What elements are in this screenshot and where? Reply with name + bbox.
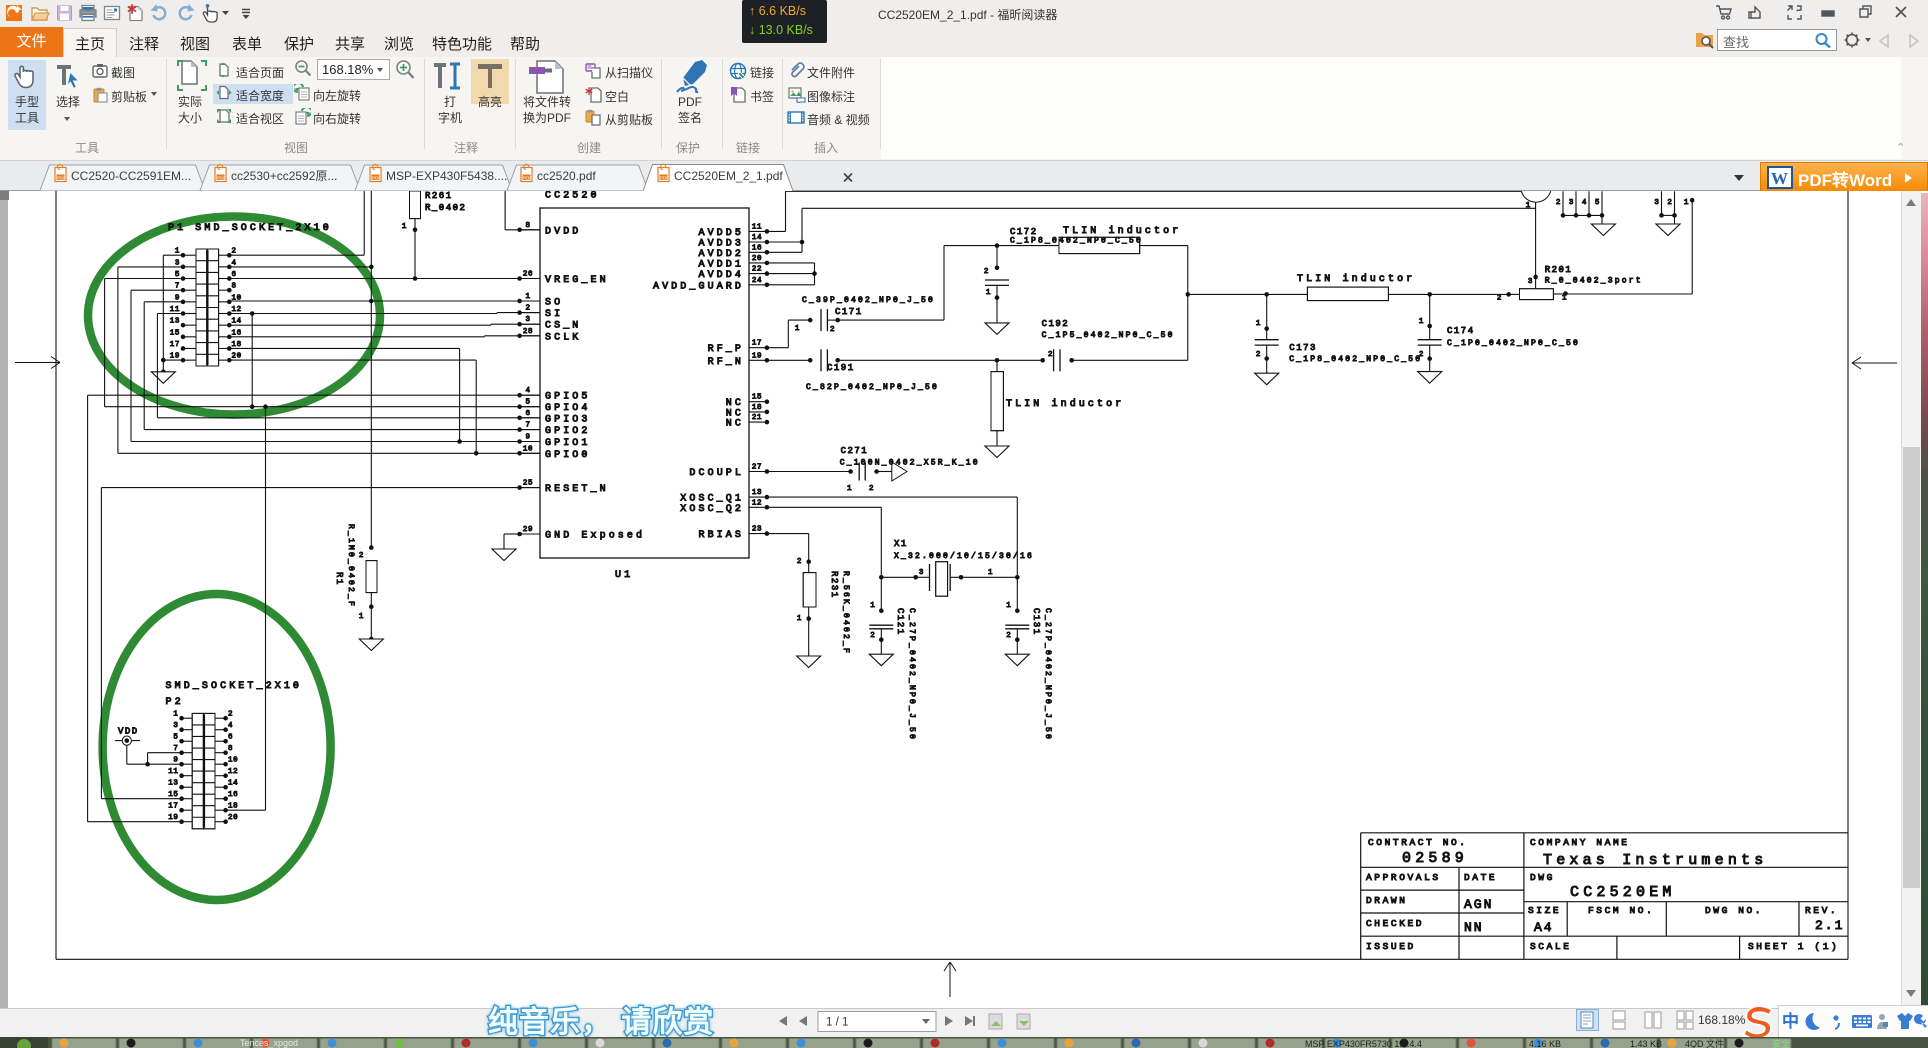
- svg-text:GPIO0: GPIO0: [545, 450, 591, 461]
- svg-text:R_1M0_0402_F: R_1M0_0402_F: [346, 524, 355, 608]
- svg-text:C_27P_0402_NP0_J_50: C_27P_0402_NP0_J_50: [1043, 608, 1052, 741]
- svg-text:Tences_xpgod: Tences_xpgod: [240, 1038, 298, 1048]
- svg-text:AVDD5: AVDD5: [698, 228, 744, 239]
- svg-text:2: 2: [984, 268, 989, 276]
- svg-text:GPIO3: GPIO3: [545, 414, 591, 425]
- svg-text:6: 6: [525, 410, 530, 418]
- svg-text:W: W: [1771, 169, 1788, 188]
- svg-text:DWG NO.: DWG NO.: [1705, 905, 1763, 916]
- svg-text:C_82P_0402_NP0_J_50: C_82P_0402_NP0_J_50: [806, 383, 939, 392]
- svg-text:XOSC_Q2: XOSC_Q2: [680, 504, 744, 515]
- svg-text:A4: A4: [1534, 920, 1554, 935]
- svg-text:RBIAS: RBIAS: [698, 530, 744, 541]
- svg-text:RF_P: RF_P: [708, 344, 744, 355]
- svg-text:MSP EXP430FR5730 1.1.4.4: MSP EXP430FR5730 1.1.4.4: [1305, 1039, 1422, 1048]
- svg-text:1: 1: [986, 289, 991, 297]
- svg-text:1: 1: [1526, 202, 1531, 210]
- svg-text:FSCM NO.: FSCM NO.: [1588, 905, 1654, 916]
- svg-text:9: 9: [525, 434, 530, 442]
- svg-text:P2: P2: [166, 697, 184, 708]
- svg-text:8: 8: [228, 745, 233, 753]
- svg-text:VREG_EN: VREG_EN: [545, 275, 609, 286]
- svg-text:22: 22: [752, 266, 762, 274]
- svg-text:C_1P8_0402_NP0_C_50: C_1P8_0402_NP0_C_50: [1289, 355, 1422, 364]
- svg-text:NN: NN: [1464, 920, 1484, 935]
- svg-text:MSP-EXP430F5438....: MSP-EXP430F5438....: [386, 169, 507, 183]
- svg-text:14: 14: [232, 318, 242, 326]
- svg-text:16: 16: [752, 244, 762, 252]
- svg-text:7: 7: [525, 422, 530, 430]
- svg-text:14: 14: [228, 780, 238, 788]
- svg-text:24: 24: [752, 277, 762, 285]
- svg-text:7: 7: [173, 745, 178, 753]
- svg-text:15: 15: [752, 394, 762, 402]
- svg-text:C131: C131: [1031, 608, 1041, 636]
- svg-text:C121: C121: [895, 608, 905, 636]
- svg-text:R231: R231: [829, 571, 839, 599]
- svg-text:1: 1: [1419, 318, 1424, 326]
- svg-text:13: 13: [168, 780, 178, 788]
- svg-text:2: 2: [830, 326, 835, 334]
- svg-text:2: 2: [1556, 199, 1561, 207]
- svg-text:10: 10: [523, 445, 533, 453]
- svg-text:2: 2: [1419, 351, 1424, 359]
- svg-text:CHECKED: CHECKED: [1366, 918, 1424, 929]
- svg-text:12: 12: [232, 306, 242, 314]
- svg-text:18: 18: [232, 341, 242, 349]
- svg-text:2: 2: [525, 305, 530, 313]
- svg-text:2: 2: [232, 248, 237, 256]
- svg-text:ISSUED: ISSUED: [1366, 941, 1416, 952]
- svg-text:C_39P_0402_NP0_J_50: C_39P_0402_NP0_J_50: [802, 296, 935, 305]
- svg-text:23: 23: [752, 526, 762, 534]
- svg-text:16: 16: [232, 329, 242, 337]
- svg-text:2: 2: [869, 485, 874, 493]
- svg-text:1: 1: [1256, 320, 1261, 328]
- svg-text:19: 19: [752, 352, 762, 360]
- svg-text:8: 8: [232, 283, 237, 291]
- svg-text:GPIO5: GPIO5: [545, 392, 591, 403]
- svg-text:29: 29: [523, 526, 533, 534]
- svg-text:11: 11: [168, 768, 178, 776]
- svg-text:Texas Instruments: Texas Instruments: [1543, 852, 1767, 869]
- svg-text:17: 17: [752, 340, 762, 348]
- svg-text:17: 17: [170, 341, 180, 349]
- svg-text:R_0402: R_0402: [425, 203, 466, 213]
- svg-text:02589: 02589: [1402, 850, 1468, 867]
- svg-text:3: 3: [175, 259, 180, 267]
- svg-text:U1: U1: [615, 570, 633, 581]
- svg-text:2: 2: [870, 632, 875, 640]
- svg-text:3: 3: [1654, 199, 1659, 207]
- svg-text:cc2520.pdf: cc2520.pdf: [537, 169, 596, 183]
- svg-text:R_56K_0402_F: R_56K_0402_F: [841, 571, 850, 655]
- svg-text:19: 19: [168, 814, 178, 822]
- svg-text:1.43 KB: 1.43 KB: [1630, 1039, 1662, 1048]
- svg-text:5: 5: [1595, 199, 1600, 207]
- svg-text:11: 11: [170, 306, 180, 314]
- svg-text:C_1P8_0402_NP0_C_50: C_1P8_0402_NP0_C_50: [1010, 237, 1143, 246]
- svg-text:DWG: DWG: [1530, 872, 1555, 883]
- svg-text:GPIO1: GPIO1: [545, 438, 591, 449]
- svg-text:SCLK: SCLK: [545, 332, 581, 343]
- svg-text:20: 20: [232, 353, 242, 361]
- svg-text:7: 7: [175, 283, 180, 291]
- svg-text:X_32.000/10/15/30/16: X_32.000/10/15/30/16: [894, 552, 1034, 561]
- svg-text:15: 15: [168, 791, 178, 799]
- svg-text:REV.: REV.: [1805, 905, 1838, 916]
- svg-text:CONTRACT NO.: CONTRACT NO.: [1368, 837, 1468, 848]
- svg-text:25: 25: [523, 480, 533, 488]
- svg-text:20: 20: [752, 255, 762, 263]
- svg-text:6: 6: [228, 734, 233, 742]
- svg-text:3: 3: [173, 722, 178, 730]
- svg-text:纯音乐， 请欣赏: 纯音乐， 请欣赏: [488, 1006, 714, 1039]
- svg-text:TLIN inductor: TLIN inductor: [1297, 273, 1415, 285]
- svg-text:1: 1: [173, 711, 178, 719]
- svg-text:4: 4: [232, 259, 237, 267]
- svg-text:1: 1: [359, 613, 364, 621]
- svg-text:1: 1: [870, 602, 875, 610]
- svg-text:4: 4: [228, 722, 233, 730]
- svg-text:5: 5: [175, 271, 180, 279]
- svg-text:1: 1: [1684, 199, 1689, 207]
- svg-text:C271: C271: [841, 446, 869, 456]
- svg-text:DCOUPL: DCOUPL: [689, 468, 744, 479]
- svg-text:17: 17: [168, 803, 178, 811]
- svg-text:10: 10: [228, 757, 238, 765]
- svg-text:12: 12: [752, 499, 762, 507]
- svg-text:AVDD4: AVDD4: [698, 270, 744, 281]
- svg-text:20: 20: [228, 814, 238, 822]
- svg-text:安全: 安全: [1772, 1038, 1790, 1048]
- svg-text:12: 12: [228, 768, 238, 776]
- svg-text:1: 1: [847, 485, 852, 493]
- svg-text:C191: C191: [827, 363, 855, 373]
- svg-text:18: 18: [228, 803, 238, 811]
- svg-text:C_1P5_0402_NP0_C_50: C_1P5_0402_NP0_C_50: [1042, 331, 1175, 340]
- svg-text:GPIO4: GPIO4: [545, 403, 591, 414]
- svg-text:SI: SI: [545, 309, 563, 320]
- svg-text:cc2530+cc2592原...: cc2530+cc2592原...: [231, 169, 337, 183]
- svg-text:AVDD1: AVDD1: [698, 259, 744, 270]
- svg-text:1 / 1: 1 / 1: [826, 1017, 848, 1029]
- svg-text:26: 26: [523, 271, 533, 279]
- svg-text:14: 14: [752, 234, 762, 242]
- svg-text:9: 9: [173, 757, 178, 765]
- svg-text:2: 2: [797, 558, 802, 566]
- svg-text:19: 19: [170, 353, 180, 361]
- svg-text:CC2520-CC2591EM...: CC2520-CC2591EM...: [71, 169, 191, 183]
- svg-text:GND Exposed: GND Exposed: [545, 530, 645, 542]
- svg-text:1: 1: [402, 223, 407, 231]
- svg-text:CS_N: CS_N: [545, 321, 581, 332]
- svg-text:SMD_SOCKET_2X10: SMD_SOCKET_2X10: [166, 681, 303, 692]
- svg-text:3: 3: [1569, 199, 1574, 207]
- svg-text:AVDD_GUARD: AVDD_GUARD: [653, 281, 744, 292]
- svg-text:5: 5: [525, 399, 530, 407]
- svg-text:TLIN inductor: TLIN inductor: [1006, 398, 1124, 410]
- svg-text:21: 21: [752, 414, 762, 422]
- svg-text:4: 4: [1582, 199, 1587, 207]
- svg-text:TLIN inductor: TLIN inductor: [1063, 225, 1181, 237]
- svg-text:2: 2: [1667, 199, 1672, 207]
- svg-text:1: 1: [525, 293, 530, 301]
- svg-text:R1: R1: [334, 572, 344, 586]
- svg-text:DVDD: DVDD: [545, 226, 581, 237]
- svg-text:C174: C174: [1447, 326, 1475, 336]
- svg-text:RESET_N: RESET_N: [545, 484, 609, 495]
- svg-text:13: 13: [752, 489, 762, 497]
- svg-text:C173: C173: [1289, 343, 1317, 353]
- svg-text:C_27P_0402_NP0_J_50: C_27P_0402_NP0_J_50: [907, 608, 916, 741]
- svg-text:2: 2: [1048, 351, 1053, 359]
- svg-text:3: 3: [525, 316, 530, 324]
- svg-text:9: 9: [175, 294, 180, 302]
- svg-text:27: 27: [752, 464, 762, 472]
- svg-text:28: 28: [523, 328, 533, 336]
- svg-text:1: 1: [795, 325, 800, 333]
- svg-text:C_1P0_0402_NP0_C_50: C_1P0_0402_NP0_C_50: [1447, 339, 1580, 348]
- svg-text:SHEET 1 (1): SHEET 1 (1): [1748, 941, 1839, 952]
- svg-text:DRAWN: DRAWN: [1366, 895, 1408, 906]
- svg-text:4QD 文件: 4QD 文件: [1685, 1038, 1724, 1048]
- svg-text:AGN: AGN: [1464, 897, 1493, 912]
- svg-text:P1 SMD_SOCKET_2X10: P1 SMD_SOCKET_2X10: [168, 223, 332, 234]
- svg-text:X1: X1: [894, 539, 908, 549]
- svg-text:4.16 KB: 4.16 KB: [1529, 1039, 1561, 1048]
- svg-text:11: 11: [752, 223, 762, 231]
- svg-text:VDD: VDD: [118, 727, 139, 737]
- svg-text:CC2520: CC2520: [545, 191, 600, 202]
- svg-text:COMPANY NAME: COMPANY NAME: [1530, 837, 1630, 848]
- svg-text:2: 2: [1006, 632, 1011, 640]
- svg-text:GPIO2: GPIO2: [545, 426, 591, 437]
- svg-text:1: 1: [797, 615, 802, 623]
- svg-text:2.1: 2.1: [1815, 918, 1844, 933]
- svg-text:1: 1: [1006, 602, 1011, 610]
- svg-text:SCALE: SCALE: [1530, 941, 1572, 952]
- svg-text:6: 6: [232, 271, 237, 279]
- svg-text:16: 16: [228, 791, 238, 799]
- svg-text:1: 1: [175, 248, 180, 256]
- svg-text:CC2520EM_2_1.pdf: CC2520EM_2_1.pdf: [674, 169, 783, 183]
- svg-text:2: 2: [1256, 351, 1261, 359]
- svg-text:C171: C171: [835, 307, 863, 317]
- svg-text:NC: NC: [726, 419, 744, 430]
- svg-text:中: 中: [1782, 1011, 1799, 1031]
- svg-text:1: 1: [988, 569, 993, 577]
- svg-text:15: 15: [170, 329, 180, 337]
- svg-text:SIZE: SIZE: [1528, 905, 1561, 916]
- svg-text:3: 3: [919, 569, 924, 577]
- svg-text:C192: C192: [1042, 319, 1070, 329]
- svg-text:C_100N_0402_X5R_K_10: C_100N_0402_X5R_K_10: [840, 459, 980, 468]
- svg-text:RF_N: RF_N: [708, 357, 744, 368]
- svg-text:SO: SO: [545, 298, 563, 309]
- svg-text:5: 5: [173, 734, 178, 742]
- svg-text:13: 13: [170, 318, 180, 326]
- svg-text:C172: C172: [1010, 227, 1038, 237]
- svg-text:2: 2: [1497, 295, 1502, 303]
- svg-text:DATE: DATE: [1464, 872, 1497, 883]
- svg-text:PDF: PDF: [57, 175, 66, 180]
- svg-text:APPROVALS: APPROVALS: [1366, 872, 1441, 883]
- svg-text:2: 2: [228, 711, 233, 719]
- svg-text:R201: R201: [1545, 265, 1573, 275]
- svg-text:18: 18: [752, 404, 762, 412]
- svg-text:CC2520EM: CC2520EM: [1570, 884, 1676, 901]
- svg-text:3: 3: [1528, 278, 1533, 286]
- svg-text:R261: R261: [425, 191, 453, 201]
- svg-text:2: 2: [359, 552, 364, 560]
- svg-text:8: 8: [525, 222, 530, 230]
- svg-text:4: 4: [525, 387, 530, 395]
- svg-text:1: 1: [1562, 295, 1567, 303]
- svg-text:R_0_0402_3port: R_0_0402_3port: [1545, 277, 1643, 286]
- svg-text:AVDD2: AVDD2: [698, 249, 744, 260]
